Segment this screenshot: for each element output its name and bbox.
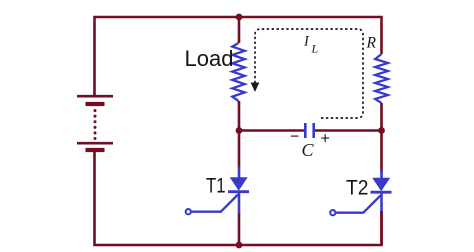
svg-text:I: I xyxy=(303,34,310,50)
wire: bottom horizontal xyxy=(95,152,382,245)
svg-text:Load: Load xyxy=(185,46,234,71)
node: top junction xyxy=(236,14,243,21)
wire: dashed current loop I_L xyxy=(255,29,363,118)
svg-text:+: + xyxy=(321,131,330,148)
svg-text:−: − xyxy=(290,129,299,146)
svg-text:R: R xyxy=(366,35,377,52)
node: bottom junction xyxy=(236,242,243,249)
capacitor C xyxy=(305,123,313,138)
svg-text:C: C xyxy=(302,140,315,160)
battery B1 xyxy=(77,96,113,150)
resistor Load xyxy=(232,43,244,101)
wire: top horizontal xyxy=(95,17,382,95)
node: cap right junction xyxy=(378,127,385,134)
wire: load branch top xyxy=(238,17,241,43)
svg-text:T2: T2 xyxy=(346,176,369,200)
wire: load branch mid xyxy=(238,101,241,169)
svg-text:T1: T1 xyxy=(206,174,226,198)
resistor R xyxy=(375,54,388,103)
thyristor T1 xyxy=(186,167,249,245)
wire: capacitor row left xyxy=(239,129,304,132)
svg-text:L: L xyxy=(311,42,319,56)
node: cap left junction xyxy=(236,127,243,134)
arrow of I_L loop xyxy=(251,83,260,93)
wire: capacitor row right xyxy=(315,129,382,132)
thyristor T2 xyxy=(330,170,391,245)
wire: right branch between R and T2 xyxy=(380,103,383,172)
